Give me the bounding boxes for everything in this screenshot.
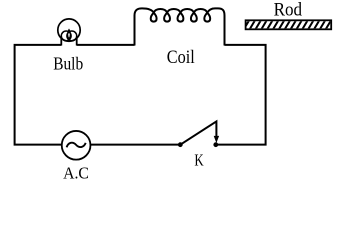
svg-text:Bulb: Bulb bbox=[53, 53, 83, 73]
svg-text:A.C: A.C bbox=[63, 163, 89, 182]
svg-text:K: K bbox=[194, 150, 203, 169]
svg-text:Coil: Coil bbox=[167, 47, 195, 68]
svg-text:Rod: Rod bbox=[274, 0, 303, 21]
